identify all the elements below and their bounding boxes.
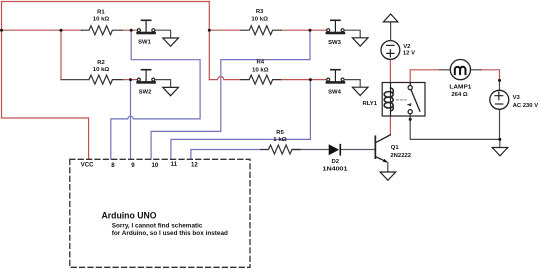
label R5 bbox=[273, 130, 287, 143]
svg-text:R5: R5 bbox=[276, 130, 284, 136]
label LAMP1 bbox=[449, 85, 472, 99]
switch SW4 bbox=[326, 70, 346, 84]
svg-text:12 V: 12 V bbox=[403, 50, 415, 56]
wire SW1 node to pin 8 with hop bbox=[111, 32, 200, 160]
power arrow VCC2 bbox=[383, 14, 398, 22]
wire VCC to Arduino bbox=[2, 118, 89, 159]
label R3 bbox=[251, 9, 268, 22]
label R1 bbox=[93, 9, 110, 22]
svg-text:SW1: SW1 bbox=[138, 40, 151, 46]
wire V3 negative lead bbox=[499, 109, 501, 139]
svg-text:10: 10 bbox=[152, 162, 159, 169]
switch SW3 bbox=[326, 20, 346, 34]
svg-text:Q1: Q1 bbox=[391, 145, 400, 151]
wire arrow to V2 bbox=[390, 22, 392, 41]
wire SW3 to ground bbox=[344, 30, 360, 38]
svg-text:for Arduino, so I used this bo: for Arduino, so I used this box instead bbox=[112, 230, 228, 237]
junction node V3 top bbox=[498, 79, 501, 82]
resistor R2 bbox=[89, 75, 122, 84]
relay RLY1 bbox=[382, 83, 425, 117]
wire SW4 node to pin 11 bbox=[171, 81, 311, 159]
label V2 bbox=[403, 44, 415, 56]
svg-text:V3: V3 bbox=[513, 95, 521, 101]
svg-text:VCC: VCC bbox=[81, 161, 94, 168]
wire SW4 to ground bbox=[344, 80, 360, 88]
transistor Q1 bbox=[375, 135, 391, 172]
lamp LAMP1 bbox=[440, 60, 481, 80]
svg-text:10 kΩ: 10 kΩ bbox=[93, 17, 110, 23]
resistor R3 bbox=[241, 26, 281, 35]
wire D2 to Q1 base bbox=[341, 149, 374, 151]
ground SW2 bbox=[163, 87, 179, 95]
junction node SW4-pin11 bbox=[309, 78, 312, 81]
wire R3 to SW3 bbox=[281, 29, 327, 31]
svg-text:R1: R1 bbox=[97, 9, 105, 15]
wire SW1 to ground bbox=[155, 30, 171, 38]
Arduino UNO box bbox=[70, 159, 250, 267]
svg-text:8: 8 bbox=[111, 162, 115, 169]
ground Q1 bbox=[380, 172, 396, 180]
junction node V3 bottom bbox=[498, 138, 501, 141]
ground V3 bbox=[499, 139, 501, 147]
wire R1 to SW1 bbox=[122, 29, 138, 31]
svg-text:10 kΩ: 10 kΩ bbox=[252, 67, 269, 73]
svg-text:R4: R4 bbox=[257, 60, 265, 66]
resistor R4 bbox=[241, 75, 281, 84]
wire R2 lead run bbox=[61, 79, 89, 81]
svg-text:R2: R2 bbox=[97, 60, 105, 66]
wire VCC branch to R2 bbox=[60, 30, 62, 79]
svg-text:10 kΩ: 10 kΩ bbox=[93, 67, 110, 73]
svg-text:Sorry, I cannot find schematic: Sorry, I cannot find schematic bbox=[112, 223, 203, 230]
wire VCC left rail bbox=[1, 2, 3, 119]
svg-text:RLY1: RLY1 bbox=[363, 101, 378, 107]
svg-text:AC 230 V: AC 230 V bbox=[513, 103, 539, 109]
svg-text:LAMP1: LAMP1 bbox=[449, 85, 472, 91]
svg-text:11: 11 bbox=[171, 161, 178, 168]
switch SW1 bbox=[136, 20, 156, 34]
wire R2 to SW2 bbox=[122, 79, 138, 81]
junction node SW1-pin8 bbox=[130, 29, 133, 32]
svg-text:R3: R3 bbox=[256, 9, 264, 15]
junction node R1-R2 feed bbox=[60, 29, 63, 32]
label R4 bbox=[252, 60, 269, 74]
switch SW2 bbox=[136, 70, 156, 84]
svg-text:D2: D2 bbox=[332, 159, 340, 165]
junction node SW2-pin9 bbox=[129, 78, 132, 81]
junction node rail-R3 bbox=[208, 29, 211, 32]
label D2 bbox=[323, 159, 349, 173]
wire VCC to R1 bbox=[2, 29, 82, 31]
wire R5 to D2 bbox=[292, 149, 329, 151]
svg-text:Arduino UNO: Arduino UNO bbox=[102, 211, 157, 221]
wire R4 to SW4 bbox=[281, 79, 327, 81]
label Q1 bbox=[390, 145, 411, 159]
wire V2 to relay coil bbox=[389, 60, 391, 83]
source V2 bbox=[381, 41, 400, 60]
junction node VCC-R1 bbox=[0, 29, 3, 32]
wire SW2 node to pin 9 bbox=[130, 81, 132, 159]
wire relay coil to Q1 collector bbox=[389, 116, 391, 135]
wire SW3 node to pin 10 bbox=[151, 32, 310, 160]
wire V3 positive lead bbox=[499, 80, 501, 90]
wire VCC rail down to R3 R4 bbox=[208, 2, 210, 80]
wire relay common to V3 ground bbox=[410, 114, 500, 140]
svg-text:10 kΩ: 10 kΩ bbox=[251, 17, 268, 23]
ground SW1 bbox=[163, 38, 179, 46]
wire SW2 to ground bbox=[155, 80, 171, 88]
wire VCC to R4 with hop bbox=[209, 77, 241, 80]
wire VCC top rail bbox=[2, 1, 210, 3]
ground SW3 bbox=[352, 38, 368, 46]
source V3 bbox=[490, 90, 509, 109]
svg-text:1 kΩ: 1 kΩ bbox=[273, 137, 287, 143]
resistor R5 bbox=[261, 145, 300, 154]
svg-text:SW4: SW4 bbox=[328, 90, 341, 96]
wire relay contact to LAMP1 bbox=[410, 70, 440, 86]
wire VCC to R3 bbox=[209, 29, 241, 31]
svg-text:V2: V2 bbox=[403, 44, 411, 50]
svg-text:1N4001: 1N4001 bbox=[323, 166, 349, 172]
diode D2 bbox=[329, 145, 340, 155]
label R2 bbox=[93, 60, 110, 73]
svg-text:9: 9 bbox=[131, 162, 135, 169]
svg-text:12: 12 bbox=[191, 162, 198, 169]
junction node SW3-pin10 bbox=[309, 29, 312, 32]
svg-text:2N2222: 2N2222 bbox=[390, 153, 411, 159]
svg-text:SW2: SW2 bbox=[139, 90, 152, 96]
ground SW4 bbox=[352, 87, 368, 95]
junction node relay common bbox=[409, 118, 412, 121]
resistor R1 bbox=[82, 26, 123, 35]
svg-text:264 Ω: 264 Ω bbox=[451, 92, 467, 98]
label V3 bbox=[513, 95, 539, 109]
wire pin 12 to R5 bbox=[191, 150, 261, 160]
svg-text:SW3: SW3 bbox=[328, 40, 341, 46]
wire LAMP1 to V3 bbox=[481, 70, 500, 81]
